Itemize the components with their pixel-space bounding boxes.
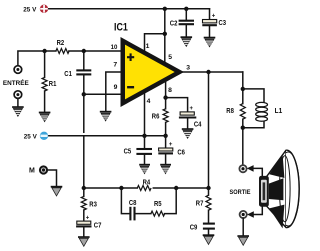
wire pin 8 to C4	[166, 81, 188, 112]
pin 10 label	[111, 44, 118, 51]
terminal -25V	[40, 132, 48, 140]
inductor L1	[243, 89, 282, 128]
svg-text:R3: R3	[89, 202, 97, 209]
capacitor C1	[64, 51, 91, 94]
label 25 V (bottom)	[24, 134, 37, 140]
wire C8/R5 branch	[121, 188, 176, 214]
svg-text:R6: R6	[152, 114, 160, 121]
ground under SORTIE (cone)	[237, 235, 249, 245]
junction dot C1 top	[82, 49, 86, 53]
terminal SORTIE bottom	[240, 211, 247, 218]
junction dot pin5 rail	[163, 7, 167, 11]
ground under M (cone)	[51, 186, 63, 196]
pin 1 label	[146, 43, 150, 50]
junction dot R8/L1 top	[241, 87, 245, 91]
junction dot feedback node	[82, 186, 86, 190]
resistor R6	[152, 98, 168, 136]
wire output to feedback node	[208, 72, 210, 188]
capacitor C8	[129, 200, 137, 221]
terminal SORTIE top	[239, 165, 246, 172]
svg-text:R1: R1	[49, 81, 57, 88]
wire feedback row	[84, 187, 209, 189]
svg-text:3: 3	[186, 65, 190, 72]
label IC1	[114, 22, 128, 34]
svg-text:C6: C6	[177, 150, 185, 157]
capacitor C3 (polarized)	[202, 9, 226, 37]
label 25 V (top)	[23, 7, 36, 13]
svg-text:1: 1	[146, 43, 150, 50]
capacitor C7 (polarized)	[76, 216, 101, 237]
wire SORTIE bottom to ground	[242, 218, 244, 235]
ground under C6	[160, 164, 171, 174]
svg-text:10: 10	[111, 44, 118, 51]
svg-text:C4: C4	[194, 122, 202, 129]
wire pin 4	[144, 92, 146, 136]
svg-text:+: +	[169, 142, 173, 148]
resistor R5	[151, 201, 165, 216]
svg-text:9: 9	[114, 84, 118, 91]
capacitor C6 (polarized)	[158, 136, 185, 164]
junction dot pin 8	[163, 95, 167, 99]
wire output pin 3	[183, 71, 243, 73]
terminal M	[40, 166, 47, 173]
wire C1 node down to feedback node	[83, 94, 85, 188]
svg-text:7: 7	[113, 62, 117, 69]
pin 8 label	[168, 87, 172, 94]
svg-text:C7: C7	[94, 223, 102, 230]
junction dot R1 top	[42, 49, 46, 53]
resistor R7	[196, 188, 211, 223]
speaker LS	[259, 150, 299, 228]
wire input to pin 10	[18, 51, 122, 65]
svg-text:5: 5	[168, 54, 172, 61]
op-amp IC1	[121, 37, 185, 107]
ground under C5	[139, 164, 150, 174]
svg-text:+: +	[212, 14, 216, 20]
svg-text:C5: C5	[124, 148, 132, 155]
junction dot R7 top	[206, 186, 210, 190]
wire to SORTIE top	[242, 128, 244, 165]
capacitor C5	[124, 136, 152, 164]
label M	[29, 167, 35, 174]
pin 7 label	[113, 62, 117, 69]
junction dot pin1/pin5	[163, 32, 167, 36]
svg-text:R2: R2	[57, 40, 65, 47]
svg-text:C3: C3	[219, 20, 227, 27]
junction dot pin 9 node	[82, 92, 86, 96]
svg-text:ENTRÉE: ENTRÉE	[3, 78, 29, 87]
terminal +25V	[40, 5, 48, 13]
label ENTREE	[3, 78, 29, 87]
resistor R8	[226, 89, 245, 128]
ground under pin 7	[100, 111, 112, 121]
ground under ENTREE	[12, 106, 24, 116]
resistor R4	[137, 179, 151, 190]
wire pin 9	[84, 93, 122, 95]
capacitor C4 (polarized)	[179, 106, 202, 129]
wire output corner to R8/L1	[242, 72, 244, 89]
speaker lead top arrow	[247, 165, 262, 176]
svg-text:SORTIE: SORTIE	[230, 189, 252, 196]
svg-text:+: +	[190, 106, 194, 112]
pin 9 label	[114, 84, 118, 91]
pin 5 label	[168, 54, 172, 61]
svg-text:IC1: IC1	[114, 22, 128, 34]
junction dot C2 rail	[184, 7, 188, 11]
svg-text:25 V: 25 V	[23, 7, 36, 13]
terminal ENTREE bottom	[14, 91, 22, 99]
junction dot output	[206, 70, 210, 74]
resistor R3	[81, 188, 97, 221]
wire pin1 and pin5 to rail	[145, 9, 165, 63]
ground under C2	[181, 36, 193, 46]
pin 3 label	[186, 65, 190, 72]
junction dot R4 right	[174, 186, 178, 190]
wire +25V top rail	[48, 8, 210, 10]
wire -25V bottom rail	[48, 135, 165, 137]
ground under C9 (cone)	[203, 234, 215, 244]
capacitor C2	[170, 9, 194, 37]
label SORTIE	[230, 189, 252, 196]
resistor R2	[56, 40, 69, 53]
wire pin 7 to ground	[106, 72, 122, 111]
pin 4 label	[147, 98, 151, 105]
junction dot R8/L1 bottom	[241, 126, 245, 130]
speaker lead bottom arrow	[247, 207, 262, 218]
wire ENTREE bottom to ground	[17, 99, 19, 107]
svg-text:M: M	[29, 167, 35, 174]
svg-text:R7: R7	[196, 201, 204, 208]
capacitor C9	[190, 224, 215, 235]
svg-text:C8: C8	[129, 200, 137, 207]
svg-text:C9: C9	[190, 224, 198, 231]
svg-text:R4: R4	[143, 179, 151, 186]
ground under C3	[204, 37, 216, 47]
svg-text:R5: R5	[154, 201, 162, 208]
svg-text:C1: C1	[64, 71, 72, 78]
terminal ENTREE top	[14, 66, 22, 74]
junction dot pin4/C5	[142, 134, 146, 138]
svg-text:L1: L1	[275, 108, 283, 115]
junction dot R6/C6	[163, 134, 167, 138]
ground under C7 (cone)	[78, 236, 90, 246]
ground under C4	[182, 128, 194, 138]
svg-text:R8: R8	[226, 108, 234, 115]
svg-text:4: 4	[147, 98, 151, 105]
svg-text:25 V: 25 V	[24, 134, 37, 140]
svg-text:+: +	[86, 216, 90, 222]
wire M to ground	[48, 170, 57, 186]
svg-text:8: 8	[168, 87, 172, 94]
resistor R1	[42, 51, 56, 112]
junction dot R4 left	[119, 186, 123, 190]
ground under R1	[39, 112, 51, 122]
svg-text:C2: C2	[170, 20, 178, 27]
